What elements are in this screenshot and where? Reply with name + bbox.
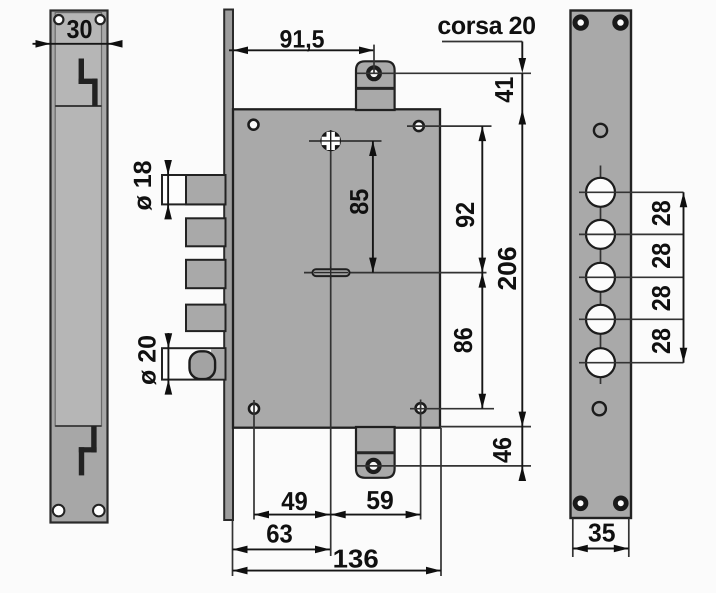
left view: top screw hole right bbox=[96, 15, 105, 24]
svg-text:ø 20: ø 20 bbox=[133, 335, 161, 385]
middle view: key cross hole bbox=[320, 131, 341, 152]
left view: bottom break/step line bbox=[79, 426, 97, 475]
right view: bottom screw hole left bbox=[573, 496, 589, 512]
dimension 41 / 206 / 46 vertical line bbox=[521, 73, 523, 480]
middle view: bolt 4 bbox=[186, 305, 226, 332]
svg-text:28: 28 bbox=[646, 243, 676, 269]
svg-text:91,5: 91,5 bbox=[280, 25, 325, 53]
svg-text:63: 63 bbox=[266, 519, 293, 549]
right view: center line through hole 1 bbox=[579, 191, 684, 193]
dimension o18 bbox=[167, 160, 169, 219]
svg-text:ø 18: ø 18 bbox=[129, 160, 157, 210]
left view: faceplate outer plate bbox=[51, 11, 108, 523]
dimension 85 bbox=[372, 141, 374, 273]
right view: center line through hole 2 bbox=[579, 233, 684, 235]
left view: inner horizontal joint line bbox=[55, 105, 101, 107]
dimension 49 / 59 line bbox=[254, 514, 421, 516]
left view: inner plate bottom edge bbox=[55, 425, 101, 427]
right view: center line through hole 5 bbox=[579, 362, 684, 364]
middle view: top deadbolt hole bbox=[368, 67, 380, 79]
right view: large hole 2 bbox=[586, 220, 615, 249]
middle view: corner hole bottom-left bbox=[249, 404, 259, 414]
dimension 92 / 86 vertical line bbox=[481, 126, 483, 409]
svg-text:46: 46 bbox=[487, 437, 517, 463]
extension line from bottom-right corner hole down bbox=[420, 400, 422, 520]
svg-text:30: 30 bbox=[67, 14, 93, 44]
svg-text:28: 28 bbox=[646, 200, 676, 226]
right view: faceplate front bbox=[571, 11, 632, 519]
right view: large hole 1 bbox=[586, 178, 615, 207]
right view: center line through hole 3 bbox=[579, 276, 684, 278]
extension line from corner hole top-right bbox=[407, 125, 492, 127]
right view: small hole bottom bbox=[593, 402, 606, 415]
right view: large hole 4 bbox=[586, 305, 615, 334]
middle view: faceplate edge strip bbox=[224, 10, 233, 521]
right view: small hole top bbox=[594, 124, 607, 137]
dimension chain 28 line bbox=[683, 192, 685, 362]
svg-text:corsa 20: corsa 20 bbox=[437, 12, 535, 40]
right view: center line through hole 4 bbox=[579, 318, 684, 320]
svg-text:35: 35 bbox=[588, 518, 616, 548]
dimension 136 bbox=[233, 570, 442, 572]
dimension 30 line bbox=[33, 43, 123, 45]
svg-text:86: 86 bbox=[448, 327, 478, 353]
right view: large hole 5 bbox=[586, 348, 615, 377]
dimension 91,5 bbox=[229, 49, 374, 51]
middle view: top deadbolt protrusion bbox=[356, 61, 395, 110]
svg-text:49: 49 bbox=[281, 486, 308, 516]
extension line from body right edge down bbox=[440, 428, 442, 576]
svg-text:28: 28 bbox=[646, 328, 676, 354]
svg-text:136: 136 bbox=[333, 544, 379, 574]
middle view: bottom deadbolt hole bbox=[367, 460, 379, 472]
dimension 35 bbox=[572, 519, 574, 558]
middle view: latch bolt o18 (white + grey) bbox=[162, 175, 226, 204]
middle view: lock body bbox=[233, 109, 440, 427]
extension line from faceplate strip down bbox=[232, 521, 234, 576]
svg-text:206: 206 bbox=[492, 247, 522, 291]
right view: vertical center line bbox=[600, 166, 602, 385]
extension line from corner hole bottom-right bbox=[410, 408, 494, 410]
middle view: bolt 3 bbox=[186, 260, 226, 288]
right view: top screw hole left bbox=[573, 14, 589, 30]
left view: top break/step line bbox=[79, 59, 98, 107]
extension line from bottom deadbolt hole bbox=[357, 465, 531, 467]
middle view: round bolt o20 bbox=[162, 348, 226, 379]
extension line through slot (for dims 85/92/86) bbox=[304, 272, 487, 274]
svg-text:92: 92 bbox=[450, 202, 480, 228]
middle view: central slot bbox=[313, 269, 350, 276]
extension line from body bottom edge bbox=[440, 426, 531, 428]
left view: top screw hole left bbox=[54, 15, 63, 24]
middle view: corner hole bottom-right bbox=[416, 403, 426, 413]
left view: inner plate (lighter) bbox=[55, 13, 101, 426]
svg-text:41: 41 bbox=[489, 77, 519, 103]
dimension o20 bbox=[167, 333, 169, 395]
svg-text:28: 28 bbox=[646, 285, 676, 311]
left view: bottom screw hole right bbox=[93, 505, 105, 517]
middle view: bolt 2 bbox=[186, 218, 226, 246]
middle view: bottom deadbolt protrusion bbox=[356, 427, 395, 478]
left view: bottom screw hole left bbox=[53, 505, 65, 517]
svg-text:85: 85 bbox=[344, 189, 374, 215]
svg-text:59: 59 bbox=[366, 485, 394, 515]
dimension 63 bbox=[233, 548, 331, 550]
right view: bottom screw hole right bbox=[613, 496, 629, 512]
middle view: corner hole top-left bbox=[249, 120, 259, 130]
center line through key hole and slot bbox=[330, 130, 332, 556]
right view: top screw hole right bbox=[612, 14, 628, 30]
middle view: corner hole top-right bbox=[414, 121, 424, 131]
extension line from bottom-left corner hole down bbox=[253, 400, 255, 520]
extension line from key hole (for dim 85) bbox=[309, 140, 382, 142]
extension line from top deadbolt hole bbox=[357, 72, 531, 74]
right view: large hole 3 bbox=[586, 263, 615, 292]
